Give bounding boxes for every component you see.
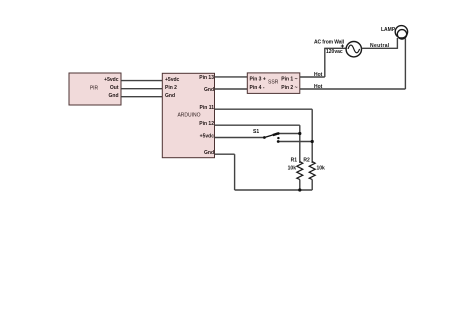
SSR pin Pin 4 - label xyxy=(250,85,265,91)
node Neutral label xyxy=(370,43,390,49)
wire AC source left terminal xyxy=(324,47,346,49)
wire PIR Out to Arduino Pin 2 xyxy=(121,88,162,90)
wire lamp left lead xyxy=(396,38,398,49)
svg-text:Pin 12: Pin 12 xyxy=(199,121,214,127)
svg-text:SSR: SSR xyxy=(268,80,279,86)
Arduino pin +5vdc (left) label xyxy=(165,77,180,83)
120vac value label xyxy=(326,49,343,55)
svg-text:120vac: 120vac xyxy=(326,49,343,55)
Arduino pin Pin 2 (left) label xyxy=(165,85,177,91)
wire Arduino Gnd to SSR Pin 4 xyxy=(215,88,248,90)
PIR label xyxy=(90,85,99,91)
wire Gnd vertical drop xyxy=(234,154,236,190)
svg-text:Neutral: Neutral xyxy=(370,43,390,49)
svg-text:+5vdc: +5vdc xyxy=(104,77,119,83)
svg-text:S1: S1 xyxy=(253,129,259,135)
Arduino pin Gnd (right upper) label xyxy=(204,87,214,93)
wire lamp right lead, vertical xyxy=(404,38,406,89)
wire Arduino Pin 13 to SSR Pin 3 xyxy=(215,76,248,78)
wire Arduino Pin 12 horizontal xyxy=(215,124,300,126)
wire Pin 11 vertical to switch lower throw and R2 xyxy=(311,109,313,163)
svg-text:ARDUINO: ARDUINO xyxy=(177,113,200,119)
AC source polarity + mark xyxy=(341,44,344,47)
node Hot (upper) label xyxy=(314,72,323,78)
svg-text:LAMP: LAMP xyxy=(381,27,396,33)
svg-text:Pin 3 +: Pin 3 + xyxy=(250,77,266,83)
svg-text:Hot: Hot xyxy=(314,84,323,90)
wire switch lower throw to R2 net xyxy=(278,141,312,143)
wire switch upper throw to R1 net xyxy=(278,133,300,135)
svg-text:Pin 2 ~: Pin 2 ~ xyxy=(281,85,297,91)
SSR pin Pin 3 + label xyxy=(250,77,266,83)
SSR label xyxy=(268,80,279,86)
switch S1 xyxy=(263,132,280,143)
PIR pin Gnd label xyxy=(109,93,119,99)
svg-text:Pin 1 ~: Pin 1 ~ xyxy=(281,77,297,83)
SSR pin Pin 1 ~ label xyxy=(281,77,297,83)
wire ground rail bottom xyxy=(235,189,313,191)
Arduino U1 box xyxy=(162,73,214,157)
AC source V1 circle xyxy=(346,42,361,57)
svg-text:Gnd: Gnd xyxy=(165,93,175,99)
svg-text:R1: R1 xyxy=(291,158,298,164)
svg-text:Pin 13: Pin 13 xyxy=(199,75,214,81)
svg-text:+5vdc: +5vdc xyxy=(200,134,215,140)
R2 label xyxy=(303,158,310,164)
wire SSR Pin 2 to lamp (Hot), horizontal xyxy=(300,88,406,90)
Arduino pin Pin 11 label xyxy=(200,105,215,111)
svg-text:AC from Wall: AC from Wall xyxy=(314,40,345,46)
lamp DS1 symbol xyxy=(395,26,407,39)
resistor R2 xyxy=(309,162,315,180)
PIR module U-PIR box xyxy=(69,73,121,105)
Arduino pin Pin 13 label xyxy=(199,75,214,81)
wire R2 bottom to ground rail xyxy=(311,180,313,191)
svg-text:R2: R2 xyxy=(303,158,310,164)
wire Hot riser, vertical segment xyxy=(324,48,326,77)
AC from Wall label xyxy=(314,40,345,46)
junction R1 bottom on ground rail xyxy=(298,188,301,191)
wire R1 bottom to ground rail xyxy=(299,180,301,191)
wire Arduino +5vdc to switch common xyxy=(215,137,265,139)
wire Pin 12 vertical to switch upper throw and R1 xyxy=(299,125,301,163)
svg-text:Pin 4 -: Pin 4 - xyxy=(250,85,265,91)
wire PIR Gnd to Arduino Gnd xyxy=(121,96,162,98)
Arduino pin +5vdc (right) label xyxy=(200,134,215,140)
junction R1 net and upper throw xyxy=(298,132,301,135)
svg-text:Pin 2: Pin 2 xyxy=(165,85,177,91)
PIR pin +5vdc label xyxy=(104,77,119,83)
wire Arduino Gnd (lower) horizontal xyxy=(215,153,235,155)
Arduino pin Gnd (left) label xyxy=(165,93,175,99)
ARDUINO label xyxy=(177,113,200,119)
svg-text:+5vdc: +5vdc xyxy=(165,77,180,83)
S1 label xyxy=(253,129,259,135)
svg-text:Gnd: Gnd xyxy=(204,150,214,156)
LAMP label xyxy=(381,27,396,33)
Arduino pin Gnd (right lower) label xyxy=(204,150,214,156)
SSR module box xyxy=(247,73,299,94)
wire Arduino Pin 11 horizontal xyxy=(215,108,313,110)
junction R2 net and lower throw xyxy=(311,140,314,143)
R2 value 10k label xyxy=(317,166,326,172)
svg-text:Gnd: Gnd xyxy=(109,93,119,99)
wire AC source right terminal to lamp (Neutral) xyxy=(362,47,398,49)
resistor R1 xyxy=(297,162,303,180)
wire SSR Pin 1 to AC source (Hot), horizontal segment xyxy=(300,76,325,78)
R1 value 10k label xyxy=(288,166,297,172)
svg-text:PIR: PIR xyxy=(90,85,99,91)
svg-text:10k: 10k xyxy=(317,166,326,172)
PIR pin Out label xyxy=(110,85,119,91)
svg-text:Hot: Hot xyxy=(314,72,323,78)
svg-text:Gnd: Gnd xyxy=(204,87,214,93)
Arduino pin Pin 12 label xyxy=(199,121,214,127)
SSR pin Pin 2 ~ label xyxy=(281,85,297,91)
wire PIR +5vdc to Arduino +5vdc xyxy=(121,80,162,82)
node Hot (lower) label xyxy=(314,84,323,90)
svg-text:Out: Out xyxy=(110,85,119,91)
R1 label xyxy=(291,158,298,164)
svg-text:Pin 11: Pin 11 xyxy=(200,105,215,111)
svg-text:10k: 10k xyxy=(288,166,297,172)
